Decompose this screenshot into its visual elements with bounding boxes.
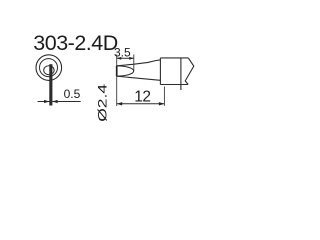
0.5 dimension line <box>38 101 81 103</box>
svg-text:Ø2.4: Ø2.4 <box>96 84 110 122</box>
end view outer circle <box>36 55 62 81</box>
3.5 right extension line <box>133 55 135 71</box>
cylinder top line <box>160 57 188 59</box>
0.5 right arrow <box>52 100 57 103</box>
svg-text:0.5: 0.5 <box>64 87 81 101</box>
blade edge bar <box>49 64 52 105</box>
sleeve vertical <box>180 58 182 90</box>
taper bottom line <box>117 76 160 80</box>
3.5 right arrow <box>129 57 134 60</box>
0.5 left arrow <box>44 100 49 103</box>
svg-text:303-2.4D: 303-2.4D <box>33 31 117 55</box>
3.5 left arrow <box>117 57 122 60</box>
12 left arrow <box>117 102 123 105</box>
taper top line <box>117 60 160 66</box>
svg-text:3.5: 3.5 <box>114 45 131 59</box>
bevel arc <box>117 66 134 76</box>
step vertical <box>159 58 161 85</box>
side view left extension line <box>116 55 118 107</box>
tip edge <box>116 66 118 76</box>
svg-text:12: 12 <box>134 89 150 106</box>
break zigzag <box>185 58 194 85</box>
12 right extension line <box>163 87 165 106</box>
end view middle circle <box>40 59 58 77</box>
12 dimension line <box>117 103 165 105</box>
cylinder bottom line <box>160 84 188 86</box>
3.5 dimension line <box>117 57 134 59</box>
12 right arrow <box>159 102 165 105</box>
end view bevel ellipse <box>44 66 54 75</box>
